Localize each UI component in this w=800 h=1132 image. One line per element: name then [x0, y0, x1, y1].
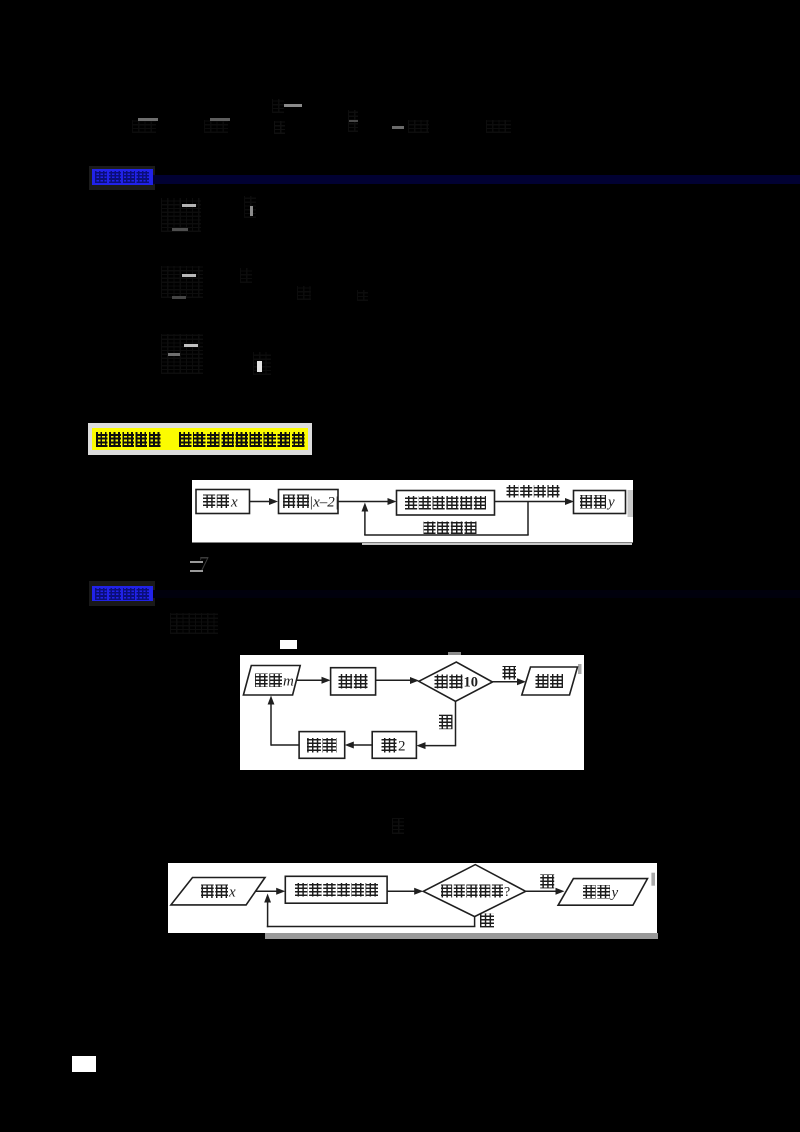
blue label block: [92, 169, 154, 185]
arrow to diamond: [376, 679, 413, 681]
parallelogram: 输入m: [243, 666, 300, 696]
line to diamond: [387, 890, 416, 892]
arrow diamond to 输出: [493, 681, 520, 683]
label: 是有理数: [423, 522, 435, 535]
line left to 乘2 with arrow: [423, 745, 456, 747]
arrow box3-box4: [494, 501, 567, 503]
parallelogram: 输出y: [558, 879, 647, 906]
line diamond down: [455, 701, 457, 745]
white background: [192, 480, 633, 543]
grey bar at right edge: [627, 490, 633, 517]
label: 否: [540, 874, 554, 888]
svg-text:10: 10: [464, 675, 479, 691]
diamond: 大于10: [419, 662, 493, 701]
radical term 2: [204, 120, 228, 133]
white background: [240, 655, 584, 770]
feedback bottom line: [364, 534, 529, 536]
svg-text:y: y: [610, 885, 619, 901]
box: 取算术平方根: [396, 491, 494, 516]
arrow diamond to 输出y: [526, 890, 558, 892]
box: 输入x: [196, 490, 250, 514]
label: 是无理数: [506, 485, 518, 498]
grey dash above chart 2: [448, 652, 461, 655]
svg-text:x: x: [230, 495, 238, 511]
parallelogram: 输入x: [171, 878, 265, 905]
grey shadow strip under flowchart 3: [265, 933, 658, 939]
light grey frame: [88, 423, 312, 456]
navy rule to right edge: [153, 175, 800, 184]
grey mark near right edge: [651, 873, 655, 886]
svg-text:y: y: [606, 495, 615, 511]
arrow box1-box2: [249, 501, 271, 503]
radical term 1: [132, 120, 156, 133]
svg-text:2: 2: [398, 739, 406, 755]
parallelogram: 输出: [522, 667, 578, 695]
heading glyph group 2: [179, 432, 306, 448]
diamond: 是有理数吗?: [423, 865, 525, 917]
arrow to rect: [255, 890, 279, 892]
fraction term 3: [284, 104, 302, 107]
label: 否: [439, 715, 453, 730]
yellow highlight: [92, 428, 308, 450]
arrow 乘2 to 开方: [352, 744, 373, 746]
grey mark near right edge: [578, 664, 582, 674]
svg-text:?: ?: [504, 885, 510, 900]
arrow to 平方: [296, 679, 324, 681]
svg-text:|x–2|: |x–2|: [309, 495, 339, 511]
box: 乘2: [372, 732, 416, 759]
grey tail strip under flowchart 1: [362, 543, 632, 546]
svg-text:m: m: [283, 674, 294, 690]
last term 6: [486, 120, 511, 133]
feedback up arrow at junction: [363, 508, 365, 535]
feedback: diamond bottom down: [474, 917, 476, 927]
loop line back to parallelogram: [271, 744, 299, 746]
label: 是: [503, 666, 517, 680]
box: 开方: [299, 732, 345, 759]
rect: 取算数平方根: [285, 876, 387, 903]
minus radical term 5: [392, 126, 404, 129]
label: 是: [480, 913, 494, 927]
grey backing: [89, 166, 155, 190]
box: 计算|x-2|: [278, 490, 338, 514]
box: 平方: [331, 668, 376, 695]
feedback line down from arrow: [527, 502, 529, 536]
heading glyph group 1: [96, 432, 162, 448]
box: 输出y: [573, 491, 625, 514]
svg-text:x: x: [228, 885, 236, 901]
feedback bottom line: [267, 926, 476, 928]
bright white dash: [280, 640, 297, 649]
arrow box2-box3: [338, 501, 390, 503]
small fraction term 4: [348, 110, 358, 132]
feedback up arrow: [267, 899, 269, 927]
white background: [168, 863, 657, 933]
dark glyphs inside blue: [95, 171, 150, 183]
